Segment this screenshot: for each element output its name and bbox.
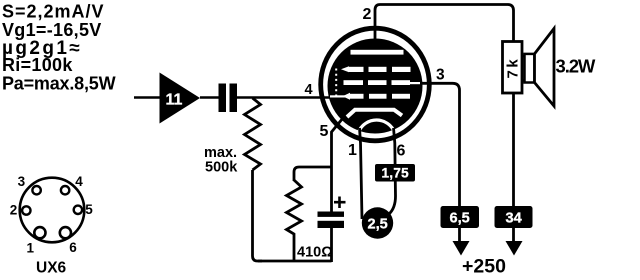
socket pin 6: [60, 227, 71, 238]
wire capacitor to bottom rail: [330, 228, 333, 262]
tube interior: [328, 39, 423, 134]
filament current box 1,75: [375, 164, 415, 182]
wire capacitor to grid pin 4: [237, 96, 331, 99]
input wire: [134, 96, 160, 99]
anode plate: [351, 50, 404, 55]
socket pin 4: [61, 186, 69, 194]
filament electrode: [359, 120, 395, 132]
wire 7k down: [512, 93, 515, 242]
socket pin 2: [22, 206, 30, 214]
svg-text:34: 34: [506, 211, 522, 227]
filament lead pin 1: [360, 128, 363, 219]
grid g3 row: [341, 66, 411, 72]
svg-text:2: 2: [363, 6, 372, 23]
svg-text:1,75: 1,75: [382, 166, 410, 181]
grid resistor max 500k: [245, 98, 261, 170]
anode current box 34: [495, 206, 533, 228]
svg-text:11: 11: [166, 92, 183, 109]
svg-text:5: 5: [320, 123, 329, 140]
input triangle 11: [160, 73, 201, 124]
svg-text:6: 6: [69, 240, 77, 255]
svg-text:2: 2: [10, 202, 18, 217]
svg-text:Vg1=-16,5V: Vg1=-16,5V: [2, 20, 102, 40]
tube envelope: [321, 28, 430, 141]
cathode lead from pin 5: [332, 118, 344, 212]
grid g2 row: [344, 80, 424, 85]
screen supply arrow: [453, 241, 470, 256]
svg-text:7k: 7k: [505, 57, 522, 79]
svg-text:410Ω: 410Ω: [297, 245, 333, 261]
pin 2 lead to HT: [375, 5, 514, 50]
svg-text:5: 5: [85, 202, 93, 217]
screen current box 6,5: [441, 206, 480, 228]
bottom rail wire: [258, 260, 332, 263]
filament voltage circle 2,5: [362, 207, 393, 238]
coupling capacitor: [219, 84, 227, 113]
svg-text:1: 1: [27, 241, 35, 256]
wire triangle to capacitor: [200, 96, 219, 99]
svg-text:Pa=max.8,5W: Pa=max.8,5W: [2, 74, 116, 94]
svg-text:S=2,2mA/V: S=2,2mA/V: [2, 2, 105, 22]
svg-text:3: 3: [436, 67, 445, 84]
svg-text:1: 1: [348, 142, 357, 159]
g3 to cathode dotted link: [335, 69, 337, 100]
cathode electrode: [347, 110, 402, 117]
loudspeaker: [525, 54, 535, 83]
svg-text:2,5: 2,5: [368, 217, 388, 233]
pin 3 lead (screen grid): [420, 83, 460, 242]
svg-text:Ri=100k: Ri=100k: [2, 55, 73, 75]
socket pin 3: [32, 186, 40, 194]
cathode network tee wire: [294, 167, 332, 181]
wire 500k to bottom rail: [253, 170, 263, 261]
svg-text:UX6: UX6: [36, 260, 67, 277]
socket pin 1: [34, 227, 45, 238]
socket pin 5: [74, 206, 82, 214]
svg-text:6: 6: [397, 143, 406, 160]
svg-text:500k: 500k: [205, 160, 238, 176]
electrolytic capacitor: [318, 212, 345, 217]
svg-text:6,5: 6,5: [450, 211, 470, 227]
UX6 socket outline: [20, 178, 85, 243]
svg-text:4: 4: [75, 174, 83, 189]
speaker connector links: [522, 56, 525, 81]
anode load resistor 7k: [503, 42, 523, 94]
svg-text:4: 4: [305, 82, 313, 98]
grid g1 row: [330, 93, 410, 100]
electrolytic capacitor plus sign: [334, 197, 346, 209]
anode supply arrow: [506, 241, 523, 256]
svg-text:3.2W: 3.2W: [556, 56, 596, 77]
filament lead pin 6: [389, 128, 396, 214]
svg-text:+250: +250: [462, 256, 506, 278]
socket pin labels: [10, 174, 94, 256]
cathode resistor 410 ohm: [287, 180, 302, 261]
svg-text:3: 3: [18, 174, 26, 189]
tube data text block: [2, 2, 116, 94]
